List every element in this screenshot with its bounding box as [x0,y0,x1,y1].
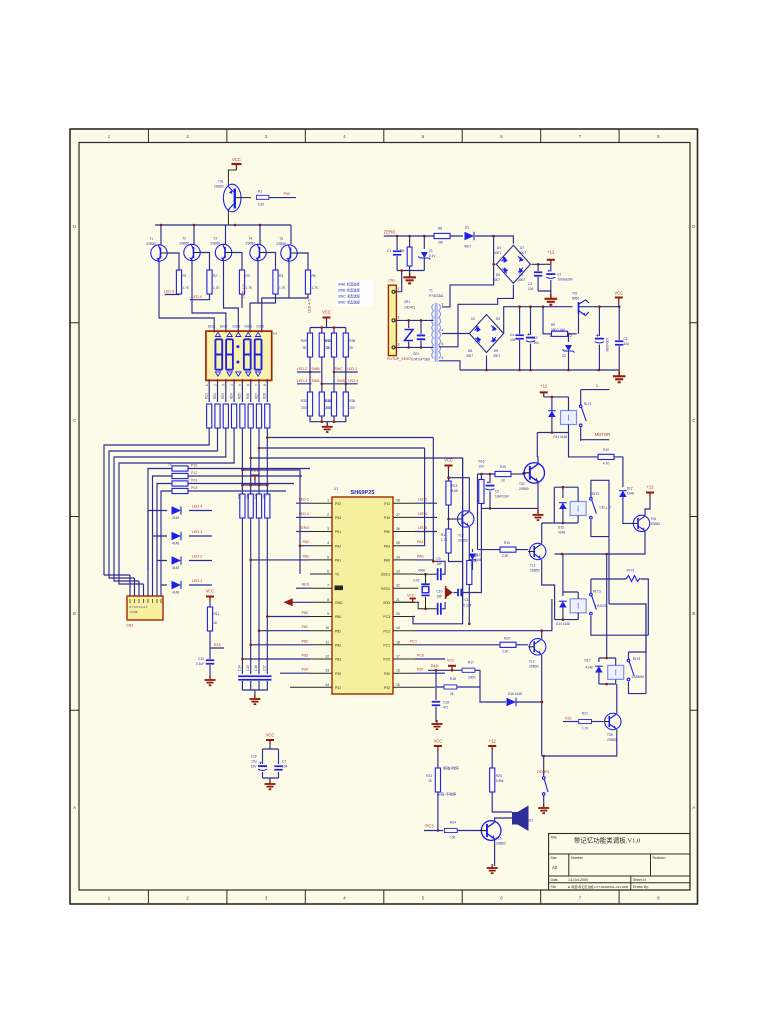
svg-text:TL2: TL2 [529,659,535,663]
svg-text:B: B [692,611,695,616]
diode LED2 feed wire [157,560,212,562]
svg-text:LED-1: LED-1 [192,579,202,583]
svg-text:R2: R2 [213,274,217,278]
relay RLY1 contact [579,390,591,441]
junction +12 node [537,263,540,266]
wire segment column c to bundle [114,428,226,575]
svg-text:P10: P10 [384,516,390,520]
wire T5 base to R5 [297,253,308,270]
svg-text:25: 25 [396,541,400,545]
svg-text:R30: R30 [301,399,307,403]
resistor R2 1.7K [207,270,221,294]
wire TL1 emitter down [542,560,555,620]
resistor R17b 100K [462,661,476,680]
resistor RA6 [246,393,253,428]
svg-text:P90: P90 [384,530,390,534]
svg-text:VCC: VCC [447,658,455,662]
svg-text:1: 1 [549,334,551,338]
svg-text:4148: 4148 [172,591,179,595]
junction on PA0 riser [432,560,435,563]
svg-text:23: 23 [396,570,400,574]
svg-text:7: 7 [255,384,259,386]
svg-text:380/1.4W: 380/1.4W [551,328,565,332]
svg-text:100: 100 [450,836,456,840]
svg-text:4.7K: 4.7K [603,461,610,465]
svg-text:C16: C16 [254,665,258,671]
svg-text:PUTUP_SE0/7: PUTUP_SE0/7 [387,357,411,361]
IC U1 body [332,487,393,694]
wire MOTOR stub [581,439,610,441]
svg-text:HX2020: HX2020 [595,604,607,608]
junction bridge left [492,263,495,266]
transistor T02 drive [519,463,545,491]
wire segment column e long down [241,428,243,674]
resistor R12 200 [467,528,478,625]
svg-text:C18: C18 [443,701,449,705]
wire pin11 P82 [251,644,310,646]
resistor RA5 [238,393,245,428]
svg-text:ZERO: ZERO [384,230,396,235]
svg-text:SWA: SWA [312,379,321,383]
resistor RA2 [213,393,220,428]
wire T3 base to R3 [232,253,243,271]
junction P40 left [435,669,438,672]
svg-text:R17: R17 [468,661,474,665]
svg-text:R18: R18 [450,677,456,681]
svg-text:100K: 100K [468,676,476,680]
junction pin4 [299,544,302,547]
ground reg rail [613,370,626,382]
svg-text:P12: P12 [191,471,197,475]
electrolytic capacitor E1 1000u/28V [546,264,573,291]
svg-text:2SB50: 2SB50 [214,185,224,189]
svg-text:Z2: Z2 [562,354,566,358]
svg-text:P83: P83 [302,654,308,658]
wire pin22 OSC0 [415,587,418,589]
wire relay1 top rail [544,396,569,398]
svg-text:4007: 4007 [494,251,501,255]
svg-text:200: 200 [325,406,331,410]
svg-text:LED-4: LED-4 [192,295,202,299]
svg-text:长鸣-不响停: 长鸣-不响停 [437,791,457,796]
bridge rectifier B1 [496,245,530,283]
IC left pin numbers [325,499,329,687]
capacitor C13 [196,657,214,666]
electrolytic capacitor E3 [595,305,609,370]
resistor RM5 200R [301,392,313,416]
svg-text:RLY3: RLY3 [593,590,601,594]
wire coil bottom to R10 [569,433,600,457]
wire transformer pin4 to bridge2 [442,333,469,335]
wire LED4 left drop [147,511,149,571]
svg-text:C5: C5 [624,337,628,341]
transistor T2 [179,237,200,261]
wire matrix columns mid [310,357,346,394]
ground filter [403,273,416,284]
resistor RB3 [172,481,188,486]
svg-text:PC1: PC1 [410,639,417,643]
power flag +12 T04 [646,485,654,498]
relay RLY2 diode [558,487,567,534]
resistor RB1 [168,463,188,472]
svg-text:P02: P02 [335,502,341,506]
svg-text:4: 4 [327,541,329,545]
svg-text:C1: C1 [387,249,391,253]
diode LED3 feed wire [153,535,213,537]
label DIG1-DIG5 [208,325,264,329]
svg-text:18P: 18P [437,595,443,599]
resistor R15 1K [495,465,511,483]
svg-text:CN1: CN1 [388,279,395,283]
relay RLY4 contact [627,652,646,694]
wire R25 to speaker [492,792,512,812]
wire D1 to bridge [475,236,513,244]
svg-text:VCC: VCC [266,733,275,738]
svg-text:100: 100 [479,465,485,469]
svg-text:2SB50: 2SB50 [210,242,220,246]
wire relay2 contact net [591,480,609,536]
display digit 2 [226,339,233,369]
junction relay1 top [551,396,554,399]
transistor T3 [210,237,231,261]
svg-text:1: 1 [398,287,400,291]
transistor TL0 [449,511,474,543]
wire C9 riser [433,561,445,574]
resistor RM8 200R [343,392,355,416]
svg-text:5: 5 [327,555,329,559]
svg-text:R8: R8 [438,227,442,231]
wire transformer pin6 [439,360,442,362]
svg-text:C4: C4 [510,333,514,337]
power flag VDD small [407,594,416,603]
wire pin9 P80 [267,616,310,618]
svg-text:T3: T3 [213,237,217,241]
svg-text:ZERO: ZERO [299,526,309,530]
power port arrow GND pin8 [284,599,293,606]
svg-text:+12: +12 [489,739,497,744]
svg-text:CELL U: CELL U [600,505,612,509]
resistor R20 2.2K [500,636,528,653]
svg-text:R22: R22 [213,393,217,399]
svg-text:P20: P20 [384,672,390,676]
svg-text:PA3: PA3 [384,544,390,548]
wire pin23 OSC3 [415,573,437,575]
svg-text:VCC: VCC [614,291,623,296]
junction TL2 collector [540,629,543,632]
wire bridge left stub [494,263,496,265]
svg-text:R25: R25 [496,774,502,778]
svg-text:LED-1: LED-1 [299,512,309,516]
wire VCC to R11 [209,601,211,607]
svg-text:0.047uF*2B0: 0.047uF*2B0 [411,358,430,362]
relay RLY3 contact [590,579,649,635]
svg-text:LED-3: LED-3 [164,290,174,294]
junction crystal top [424,573,427,576]
svg-text:2.2K: 2.2K [502,649,509,653]
svg-text:3: 3 [327,527,329,531]
title block [549,834,690,891]
svg-text:PC1: PC1 [383,644,390,648]
svg-text:2.2K: 2.2K [502,554,509,558]
svg-text:DIG5: DIG5 [257,325,265,329]
wire AC feed down to transformer [442,236,494,307]
frame row ticks left and right [70,323,698,711]
connector CN2 [127,596,163,620]
svg-text:RLY4: RLY4 [633,657,641,661]
transistor T1 [146,237,167,261]
svg-text:P03: P03 [191,486,197,490]
svg-text:C9: C9 [437,557,441,561]
annotation box SW functions [336,280,373,306]
wire transformer pin5 down [439,347,460,370]
svg-text:P02: P02 [384,686,390,690]
svg-text:14-Oct-2005: 14-Oct-2005 [568,878,588,882]
junction pin9 [266,615,269,618]
resistor R3 1.7K [239,270,253,294]
junction rail bottom [542,755,545,758]
svg-text:1: 1 [327,499,329,503]
power flag VCC matrix [322,310,331,323]
svg-text:C2: C2 [495,490,499,494]
wire P20 row [563,721,578,723]
junction dots AC rail [396,235,426,238]
wire segment column f long down [250,428,252,674]
svg-text:17: 17 [396,655,400,659]
svg-text:DIG1: DIG1 [208,325,216,329]
svg-text:SWC: 机型选择: SWC: 机型选择 [338,294,361,299]
svg-text:鸣响-响停: 鸣响-响停 [443,766,459,771]
wire pin24 PA0 riser [415,438,433,560]
svg-text:D7: D7 [520,246,524,250]
wire bridge bottom out [442,285,513,347]
wire node to R16 branch [449,478,470,528]
resistor R13 5.6K [446,481,459,505]
svg-text:CE1: CE1 [413,352,419,356]
wire TL2 collector up to relay3 zone [541,631,543,639]
svg-text:1.7K: 1.7K [213,286,220,290]
svg-text:TL0: TL0 [458,534,464,538]
long wire L3 to PC3 [251,458,463,617]
svg-text:2SB50: 2SB50 [245,242,255,246]
wire matrix row2 segments [297,383,358,385]
svg-text:Size: Size [551,856,558,860]
svg-text:1.7K: 1.7K [279,286,286,290]
resistor RREG 380 [549,323,577,338]
svg-text:4007: 4007 [464,245,471,249]
svg-text:R15: R15 [214,643,221,647]
svg-text:D12: D12 [627,486,633,490]
svg-text:D8: D8 [468,349,472,353]
wire T05 collector up to relay4 rail [616,684,618,714]
svg-text:2: 2 [570,334,572,338]
capacitor C18 471 [432,701,449,723]
junction base row [437,829,440,832]
svg-text:P81: P81 [335,629,341,633]
svg-text:PTC1: PTC1 [627,569,635,573]
capacitor CB3 [615,305,629,370]
relay RLY1 coil [561,397,577,433]
ground T06 [487,864,498,873]
transistor TL2 [528,639,546,669]
wire row2 right [188,475,302,477]
svg-text:9: 9 [327,612,329,616]
svg-text:C14: C14 [238,665,242,671]
wire segment column g long down [258,428,260,674]
svg-text:10K: 10K [263,492,267,499]
svg-text:PA1: PA1 [417,540,424,544]
svg-text:P01: P01 [191,479,197,483]
svg-text:2SB50: 2SB50 [179,242,189,246]
resistor RM3 2K [325,333,337,357]
svg-text:+12: +12 [547,250,555,255]
junction filter rail [400,269,403,272]
svg-text:10uF/16V: 10uF/16V [495,495,510,499]
svg-text:18: 18 [396,640,400,644]
capacitor C11 0.1uF [454,508,482,607]
wire pin27 LED4 [415,516,437,518]
svg-text:1000u/28V: 1000u/28V [558,278,574,282]
junction pin10 [258,629,261,632]
thermistor PTC1 [591,569,648,636]
svg-text:PC3: PC3 [425,824,434,829]
wire base 8050 down [543,307,579,334]
zener ZD1 [418,236,436,271]
svg-text:+12: +12 [540,384,548,389]
junction dots matrix rail [321,326,336,329]
svg-text:LED-1: LED-1 [347,367,357,371]
svg-text:LED-4: LED-4 [192,505,202,509]
junction base TL0 [447,518,450,521]
svg-text:R16: R16 [479,460,485,464]
capacitor C14 [238,665,247,681]
resistor R17 vertical [479,474,484,508]
wire R21b to T05 [591,721,603,723]
wire R4 tail [258,294,276,303]
power flag VCC mid [206,589,215,602]
frame zone letters [73,224,695,810]
svg-text:2SB50: 2SB50 [519,487,529,491]
ground decouple [265,780,276,789]
resistor R14 1.7K [441,529,451,553]
wire T04 emitter to rail [555,531,645,555]
relay RLY4 diode [585,658,603,684]
diode D12 [619,486,634,523]
wire relay4 contact top [629,604,647,652]
wire C10 tail [442,602,445,609]
wire drive bus [155,224,291,226]
long wire L2 to TL1 base [259,447,425,449]
svg-text:R33: R33 [325,339,331,343]
wire pin10 P81 [259,630,310,632]
svg-text:T4: T4 [248,237,252,241]
resistor RA1 [205,393,212,428]
capacitor C20 104 [274,760,287,771]
svg-text:DIG3: DIG3 [233,325,241,329]
power flag VCC buzzer [433,739,442,751]
svg-text:18P: 18P [437,562,443,566]
svg-text:15: 15 [396,683,400,687]
svg-text:LED-2-3: LED-2-3 [242,284,246,297]
svg-text:R3: R3 [246,274,250,278]
svg-text:R14: R14 [441,533,447,537]
resistor RF1 [434,227,450,245]
power port arrow right [446,586,453,599]
wire matrix top rail [310,322,346,334]
svg-text:27: 27 [396,513,400,517]
svg-text:10: 10 [325,626,329,630]
svg-text:4148: 4148 [172,516,179,520]
svg-text:10u: 10u [251,760,257,764]
svg-text:SWD: SWD [337,379,346,383]
svg-text:R1: R1 [183,274,187,278]
svg-text:T01: T01 [218,180,224,184]
svg-text:R24: R24 [450,821,456,825]
display digit 4 [255,339,262,369]
svg-text:SH69P25: SH69P25 [351,490,375,496]
transistor T05 [603,713,621,742]
resistor R0 2.2K [256,190,268,207]
relay RLY2 coil [570,487,586,523]
svg-text:10u: 10u [534,341,540,345]
svg-text:PC2: PC2 [383,629,390,633]
IC right pin stubs [393,503,415,687]
capacitor C16 [254,665,263,681]
svg-text:2.2K: 2.2K [258,203,265,207]
relay RLY3 coil [563,592,586,620]
svg-text:R26: R26 [246,393,250,399]
junction reg rail left [542,305,545,308]
svg-text:LED-3: LED-3 [192,530,202,534]
wire pin26 LED5 [415,531,437,533]
resistor RA8 [263,393,270,428]
wire R15 to T02 base [511,473,526,475]
wire pin17 PC0 [415,658,445,660]
transistor T01 [223,184,251,212]
svg-text:3: 3 [442,303,444,307]
wire T02 collector up [536,457,539,465]
capacitor C17 [262,665,271,681]
svg-text:1.7K: 1.7K [582,727,589,731]
relay RLY3 diode [556,554,570,626]
wire T3 collector to DIG3 [224,261,239,331]
wire CN1 pin1 riser [395,291,402,293]
svg-text:R34: R34 [325,399,331,403]
svg-text:2SB50: 2SB50 [530,569,540,573]
wire resistor rows to bundle [148,469,172,571]
svg-text:2: 2 [213,384,217,386]
svg-text:2SB50: 2SB50 [146,242,156,246]
resistor R18 2K [444,677,457,696]
svg-text:D13: D13 [475,553,481,557]
svg-text:P31: P31 [335,686,341,690]
diode D LED-2 [172,555,203,571]
svg-text:D15: D15 [558,526,564,530]
capacitor CB2 [510,305,524,370]
svg-text:0.1uF: 0.1uF [196,662,204,666]
svg-text:10K: 10K [238,492,242,499]
wire bridge2 bottom [486,356,488,371]
wire speaker bottom to T06 collector [495,818,512,822]
ground DOOR [538,804,549,813]
transistor TR2 8050 pass [572,292,619,316]
resistor R5 1.7K [305,270,319,294]
wire pin21 VDD [393,601,419,603]
wire R24 to T06 [457,830,480,832]
svg-text:VCC: VCC [433,739,442,744]
svg-text:+12: +12 [646,485,654,490]
wire R22b down to base row [437,792,439,831]
svg-text:2W: 2W [438,241,443,245]
